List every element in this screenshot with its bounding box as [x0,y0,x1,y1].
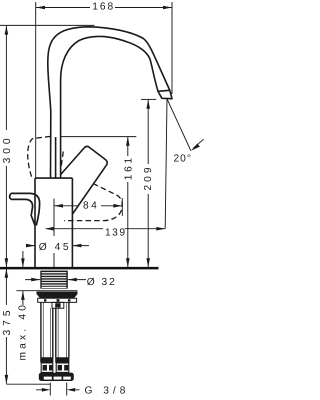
161 reference line [61,136,137,138]
thin reference lines [0,2,172,396]
dashed handle down position [64,184,122,221]
spout outer curve [48,27,170,179]
161 dim line [127,137,129,267]
209 tick under spout tip [141,98,156,100]
hose inner wall lines [43,302,66,357]
threaded shank [40,271,68,289]
209 arrows [146,100,150,109]
svg-text:max. 40: max. 40 [17,302,28,361]
168 dim line [36,7,172,9]
lever (left hook) [10,193,40,225]
vertical pipe rear line [55,137,57,178]
svg-text:84: 84 [83,201,99,212]
139 arrows [45,227,53,231]
mounting nut [37,292,78,299]
hose nuts [41,363,69,373]
84 right extension tick [121,198,123,216]
nut lower tier [38,298,77,308]
300 dim line [5,26,7,267]
dashed handle up position [28,136,64,178]
svg-text:375: 375 [2,307,13,336]
connector base plate [39,373,74,381]
hoses [41,302,69,357]
168 arrows [36,6,45,10]
center ticks x=54 [53,199,55,268]
svg-text:161: 161 [123,155,134,180]
dia45 arrows [26,244,35,248]
body [35,178,72,267]
max40 dim verticals [22,251,24,305]
dia32 dim lines [25,279,86,281]
139 dim line [46,228,166,230]
svg-text:Ø 32: Ø 32 [87,277,117,288]
nut facet marks [44,299,70,307]
375 dim line [5,269,7,384]
hose nut facets [43,365,69,371]
base plate slots [44,377,71,380]
arrowheads [5,6,200,392]
209 dim line [147,100,149,267]
G3/8 arrows [42,388,51,392]
svg-text:Ø 45: Ø 45 [39,242,71,253]
svg-text:300: 300 [2,134,13,163]
20deg arrow [191,144,200,151]
dimension texts [92,2,115,13]
84 arrows [54,204,63,208]
body fill [35,178,72,267]
84 dim line [54,205,122,207]
dia45 dim lines [27,245,90,247]
300 arrows [5,26,9,35]
375 arrows [5,269,9,278]
svg-text:168: 168 [92,2,115,13]
svg-text:209: 209 [143,165,154,191]
spout inner curve [61,36,158,178]
extension line left (168) [35,2,37,179]
svg-text:139: 139 [105,227,127,238]
top reference line (300 max height) [0,24,95,26]
G3/8 extension lines [50,383,66,396]
deck bottom line [16,290,77,292]
mounting hardware below counter [40,271,68,289]
spout column fill (occludes handle left part) [48,27,170,179]
aerator end cap [158,90,172,98]
G3/8 dim lines [36,389,80,391]
extension line right (168) [171,2,173,94]
max40 arrows [21,258,25,267]
dia32 arrows [31,278,40,282]
hose end reference line [6,383,50,385]
hose crimp collars [40,357,69,363]
161 arrows [126,137,130,146]
svg-text:G 3/8: G 3/8 [85,386,130,397]
20 degree angle lines [165,99,203,229]
svg-text:20°: 20° [174,154,192,165]
dimension lines [6,8,172,390]
counter line [0,267,159,270]
handle (solid, tilted rounded rect) drawn first, occluded by spout/body [53,146,107,215]
